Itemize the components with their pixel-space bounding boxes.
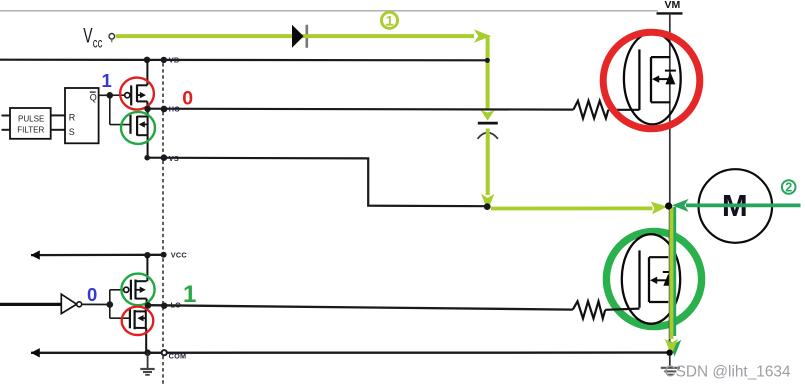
svg-text:Q: Q <box>90 93 97 103</box>
dashed IC boundary line <box>162 57 164 385</box>
wire R <box>51 114 65 116</box>
node COM junction dot <box>144 349 151 356</box>
node LO pin dot <box>161 303 167 309</box>
red circle around M1 <box>603 32 700 129</box>
node latch output dot <box>107 92 114 99</box>
node COM right end dot <box>666 350 672 356</box>
current path 1: green vertical arrow below cap <box>481 129 494 211</box>
node HO pin dot <box>161 106 168 113</box>
current path 2: dark green vertical arrow to ground <box>668 207 681 357</box>
wire VS line with jog <box>147 158 488 207</box>
inverter U2 <box>61 294 81 313</box>
svg-text:S: S <box>69 127 75 137</box>
svg-text:0: 0 <box>182 87 193 109</box>
wire Q2 source to VS <box>147 135 149 158</box>
wire gate branch vertical low side <box>109 290 111 318</box>
current path 1: green vertical arrow down to bootstrap cap <box>481 35 495 121</box>
green circle around Q3 <box>121 274 154 306</box>
resistor R1 gate resistor high side <box>573 101 608 119</box>
wire R1 to M1 gate <box>608 109 639 111</box>
bootstrap diode <box>292 25 304 48</box>
end dot of VB rail <box>485 58 490 63</box>
ground right <box>661 356 680 375</box>
wire Q3 source to LO <box>146 299 148 305</box>
node VB pin dot <box>161 57 167 63</box>
svg-text:COM: COM <box>169 351 187 360</box>
wire Q1 source to HO <box>146 101 148 108</box>
wire input stub 2 <box>2 129 11 131</box>
svg-text:0: 0 <box>87 284 97 305</box>
svg-text:1: 1 <box>386 13 394 28</box>
bootstrap diode cathode bar <box>305 25 308 48</box>
svg-text:VCC: VCC <box>171 251 188 260</box>
node VCC pin dot <box>161 252 167 258</box>
wire to Q4 gate <box>110 317 130 319</box>
svg-text:R: R <box>69 113 76 123</box>
node VS left dot <box>144 155 150 161</box>
resistor R2 gate resistor low side <box>573 301 605 318</box>
wire Q4 drain to LO <box>145 305 147 312</box>
wire VCC line <box>31 254 164 257</box>
wire VM rail down <box>669 13 671 205</box>
svg-text:PULSE: PULSE <box>18 114 45 124</box>
RS latch U1 <box>65 88 99 143</box>
transistor Q2 high-side driver NMOS <box>131 115 148 136</box>
transistor M2 low-side power MOSFET <box>622 234 680 324</box>
svg-text:cc: cc <box>93 36 103 51</box>
wire HO line <box>148 108 574 111</box>
svg-text:VM: VM <box>665 0 681 11</box>
node LO junction dot <box>145 302 152 309</box>
arrow COM left <box>31 348 40 357</box>
wire to Q3 gate <box>110 289 124 291</box>
motor M <box>699 169 773 243</box>
wire gate branch vertical <box>109 95 111 124</box>
svg-text:V: V <box>83 25 92 48</box>
wire VB rail <box>0 59 488 62</box>
node HO junction dot <box>144 106 151 113</box>
Vcc label <box>83 25 102 51</box>
wire R2 to M2 gate <box>605 309 639 310</box>
svg-text:FILTER: FILTER <box>17 124 44 134</box>
wire latch output to gates <box>99 94 125 96</box>
node inverter output dot <box>107 301 114 308</box>
VM supply bar <box>657 12 683 14</box>
node switch node dot <box>665 202 672 209</box>
current path 1: green vertical arrow to ground <box>665 207 678 356</box>
arrow VCC left <box>31 250 40 259</box>
red circle around Q4 <box>122 307 154 335</box>
svg-text:2: 2 <box>785 181 792 195</box>
wire inverter input <box>0 303 61 306</box>
node COM pin circle <box>162 350 167 355</box>
wire inverter output <box>82 303 110 305</box>
big green circle around M2 <box>606 231 701 326</box>
svg-text:1: 1 <box>183 281 196 308</box>
wire LO line <box>148 305 573 309</box>
transistor M1 high-side power MOSFET <box>624 33 681 125</box>
wire Q4 source to COM <box>145 328 147 353</box>
transistor Q1 high-side driver PMOS <box>125 85 148 106</box>
pulse filter block <box>10 108 51 139</box>
wire Q2 drain to HO <box>147 109 149 117</box>
circled 1 annotation <box>381 12 397 28</box>
node VS pin dot <box>161 154 168 161</box>
transistor Q3 low-side driver PMOS <box>124 280 147 300</box>
wire to NMOS gate <box>110 124 131 126</box>
current path 1: green horizontal arrow to switch node <box>491 202 667 215</box>
current path 1: green horizontal arrow from Vcc <box>116 29 491 42</box>
wire switch node rail down to COM <box>669 206 671 353</box>
capacitor C1 bootstrap bottom plate <box>478 133 498 139</box>
svg-text:LO: LO <box>171 300 182 309</box>
svg-text:HO: HO <box>169 105 180 114</box>
wire S <box>51 129 65 131</box>
svg-text:VB: VB <box>169 56 180 65</box>
circled 2 annotation <box>782 180 796 194</box>
capacitor C1 bootstrap top plate <box>478 122 498 125</box>
svg-text:1: 1 <box>101 70 111 91</box>
wire Q1 drain to VB <box>146 60 148 86</box>
Vcc terminal <box>109 34 115 40</box>
wire COM line <box>31 351 670 354</box>
node VB junction dot <box>144 57 150 63</box>
svg-text:VS: VS <box>169 154 179 163</box>
red circle around Q1 <box>120 78 154 110</box>
wire VCC to Q3 <box>146 255 148 281</box>
wire input stub 1 <box>2 115 11 117</box>
current path 2: dark green arrow from motor <box>672 199 801 212</box>
node VS-green junction dot <box>484 203 491 210</box>
svg-text:CSDN @liht_1634: CSDN @liht_1634 <box>665 364 791 381</box>
ground left <box>140 353 154 375</box>
node VCC junction dot <box>144 252 150 258</box>
transistor Q4 low-side driver NMOS <box>130 308 146 329</box>
green circle around Q2 <box>121 112 155 144</box>
